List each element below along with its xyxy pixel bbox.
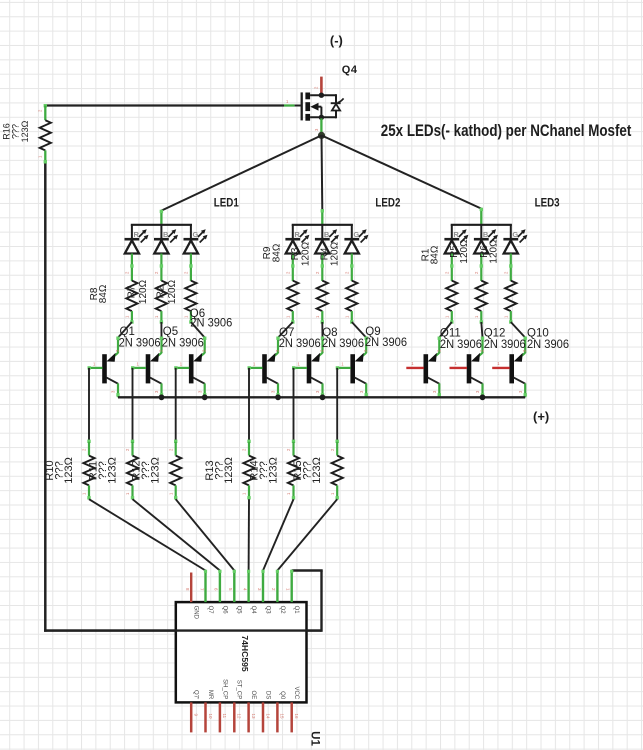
LED LED3-G <box>503 225 527 254</box>
svg-text:Q12: Q12 <box>484 328 506 340</box>
pin Q7&#8242; (bottom) of U1 <box>190 702 193 732</box>
svg-text:B: B <box>483 230 489 239</box>
wire: right riser of Q1 loop <box>320 571 322 632</box>
LED LED3-B <box>474 225 498 254</box>
svg-text:123Ω: 123Ω <box>311 457 323 484</box>
svg-text:G: G <box>193 230 199 239</box>
transistor Q6 2N3906 PNP <box>189 349 207 383</box>
svg-text:B: B <box>163 230 169 239</box>
svg-text:14: 14 <box>265 714 270 720</box>
pin DS (bottom) of U1 <box>262 702 265 732</box>
svg-text:120Ω: 120Ω <box>489 239 500 264</box>
transistor Q10 2N3906 PNP <box>509 349 527 383</box>
wire base of Q1 <box>89 367 103 369</box>
wire base drop to R13 <box>248 368 250 442</box>
wire collector of Q5 to bus <box>150 377 162 383</box>
svg-text:25x LEDs(- kathod) per NChanel: 25x LEDs(- kathod) per NChanel Mosfet <box>381 122 632 140</box>
wire R10 to 74HC595 pin <box>89 499 206 570</box>
svg-text:123Ω: 123Ω <box>63 457 75 484</box>
wire feed resistor to Q11 emitter <box>439 322 452 338</box>
svg-text:Q0: Q0 <box>279 691 285 700</box>
resistor R14 <box>292 442 294 456</box>
resistor R4 <box>346 281 357 312</box>
LED LED1-G <box>184 225 208 254</box>
wire LED LED2-B to resistor <box>321 254 323 282</box>
wire base of Q7 <box>249 367 263 369</box>
wire base drop to R15 <box>336 368 338 442</box>
resistor R13 <box>248 442 250 456</box>
transistor Q11 2N3906 PNP <box>424 349 442 383</box>
wire base drop to R11 <box>132 368 134 442</box>
transistor Q1 2N3906 PNP <box>102 349 120 383</box>
wire collector of Q9 to bus <box>355 377 367 383</box>
node LED2 feed <box>321 210 323 225</box>
svg-text:Q7′: Q7′ <box>193 690 199 700</box>
svg-text:U1: U1 <box>309 731 321 746</box>
svg-text:VCC: VCC <box>293 687 299 700</box>
pin Q1 (top) of U1 <box>291 571 293 603</box>
svg-text:R: R <box>134 230 140 239</box>
svg-text:84Ω: 84Ω <box>98 284 109 303</box>
wire: fan to LED2 <box>321 135 324 210</box>
LED LED3-R <box>444 225 468 254</box>
wire collector of Q12 to bus <box>471 377 483 383</box>
wire: gate wire from R16 top to MOSFET gate <box>45 104 284 106</box>
svg-text:GND: GND <box>193 606 199 620</box>
resistor R8 <box>126 281 137 312</box>
svg-text:2N 3906: 2N 3906 <box>190 318 232 330</box>
wire feed resistor to Q7 emitter <box>278 322 293 338</box>
svg-text:2N 3906: 2N 3906 <box>440 339 482 351</box>
wire collector of Q1 to bus <box>106 377 118 383</box>
junction on bus <box>202 394 208 400</box>
wire LED LED1-G to resistor <box>190 254 192 282</box>
svg-text:R7: R7 <box>127 285 138 298</box>
svg-text:74HC595: 74HC595 <box>240 635 250 672</box>
svg-text:15: 15 <box>280 714 285 720</box>
wire LED3 top bracket <box>451 224 512 226</box>
wire LED LED2-G to resistor <box>351 254 353 282</box>
svg-text:LED3: LED3 <box>535 197 560 209</box>
svg-text:10: 10 <box>208 714 213 720</box>
pin Q2 (top) of U1 <box>276 571 278 603</box>
svg-text:2N 3906: 2N 3906 <box>484 339 526 351</box>
svg-text:120Ω: 120Ω <box>138 279 149 304</box>
wire base of Q5 <box>133 367 147 369</box>
wire LED1 top bracket <box>131 224 192 226</box>
svg-text:12: 12 <box>237 714 242 720</box>
wire: fan to LED3 <box>322 135 482 208</box>
pin Q3 (top) of U1 <box>262 571 264 603</box>
svg-text:Q1: Q1 <box>293 606 299 615</box>
svg-text:16: 16 <box>294 714 299 720</box>
pin base of Q10 (unconnected) <box>492 367 510 369</box>
svg-text:120Ω: 120Ω <box>459 239 470 264</box>
svg-text:R2: R2 <box>156 285 167 298</box>
svg-text:G: G <box>512 230 518 239</box>
resistor R1 <box>446 281 457 312</box>
svg-text:123Ω: 123Ω <box>223 457 235 484</box>
wire R11 to 74HC595 pin <box>133 499 220 570</box>
wire base of Q9 <box>337 367 351 369</box>
svg-text:G: G <box>353 230 359 239</box>
resistor R2 <box>185 281 196 312</box>
resistor R6 <box>505 281 516 312</box>
svg-text:120Ω: 120Ω <box>300 241 311 266</box>
wire feed resistor to Q9 emitter <box>352 322 366 338</box>
wire base drop to R10 <box>88 368 90 442</box>
pin base of Q11 (unconnected) <box>406 367 424 369</box>
wire collector of Q7 to bus <box>266 377 278 383</box>
wire feed resistor to Q8 emitter <box>321 322 323 338</box>
svg-text:Q7: Q7 <box>207 606 213 615</box>
pin Q4 (top) of U1 <box>247 571 249 603</box>
LED LED2-B <box>315 225 339 254</box>
wire LED LED1-R to resistor <box>131 254 133 282</box>
node LED1 feed <box>160 210 162 224</box>
svg-text:120Ω: 120Ω <box>167 279 178 304</box>
wire: bottom horizontal run crossing IC <box>44 629 321 631</box>
svg-text:LED2: LED2 <box>375 197 400 209</box>
wire base of Q8 <box>294 367 308 369</box>
wire LED LED3-R to resistor <box>451 254 453 282</box>
wire collector of Q6 to bus <box>193 377 205 383</box>
svg-text:(-): (-) <box>330 33 343 48</box>
wire base drop to R14 <box>293 368 295 442</box>
pin base of Q12 (unconnected) <box>450 367 468 369</box>
pin Q7 (top) of U1 <box>204 571 206 603</box>
svg-text:84Ω: 84Ω <box>430 245 441 264</box>
svg-text:120Ω: 120Ω <box>330 241 341 266</box>
svg-text:2N 3906: 2N 3906 <box>279 338 321 350</box>
resistor R10 <box>88 442 90 456</box>
wire LED2 top bracket <box>292 224 353 226</box>
transistor Q7 2N3906 PNP <box>262 349 280 383</box>
junction on bus <box>320 394 326 400</box>
svg-text:Q2: Q2 <box>279 606 285 615</box>
wire R14 to 74HC595 pin <box>263 499 294 570</box>
resistor R11 <box>131 442 133 456</box>
LED LED2-G <box>344 225 368 254</box>
svg-text:2N 3906: 2N 3906 <box>322 338 364 350</box>
svg-text:???: ??? <box>11 124 21 139</box>
transistor Q5 2N3906 PNP <box>146 349 164 383</box>
wire feed resistor to Q12 emitter <box>481 322 482 338</box>
svg-text:Q6: Q6 <box>221 606 227 615</box>
svg-text:SH_CP: SH_CP <box>221 679 227 699</box>
wire feed resistor to Q5 emitter <box>160 322 162 338</box>
op-amp U1 74HC595 IC body <box>176 602 307 702</box>
wire (+) bus <box>118 396 525 398</box>
wire LED LED2-R to resistor <box>292 254 294 282</box>
svg-text:B: B <box>324 230 330 239</box>
svg-text:ST_CP: ST_CP <box>236 680 242 699</box>
transistor Q4 N-channel MOSFET <box>302 77 344 133</box>
resistor R15 <box>336 442 338 456</box>
wire base drop to R12 <box>175 368 177 442</box>
resistor R3 <box>317 281 328 312</box>
wire base of Q6 <box>176 367 190 369</box>
svg-text:MR: MR <box>207 690 213 700</box>
wire LED LED3-G to resistor <box>510 254 512 282</box>
transistor Q12 2N3906 PNP <box>467 349 485 383</box>
svg-text:Q11: Q11 <box>440 328 461 340</box>
svg-text:84Ω: 84Ω <box>272 243 283 262</box>
wire R12 to 74HC595 pin <box>176 499 235 570</box>
LED LED2-R <box>285 225 309 254</box>
node: MOSFET source fan-out junction <box>318 132 325 139</box>
svg-text:(+): (+) <box>533 409 549 424</box>
resistor R16 <box>44 106 46 121</box>
wire: left rail from R16 down to bottom <box>44 163 47 632</box>
junction on bus <box>159 394 165 400</box>
svg-text:13: 13 <box>251 714 256 720</box>
svg-text:Q1: Q1 <box>120 326 135 338</box>
svg-text:2N 3906: 2N 3906 <box>119 337 161 349</box>
svg-text:LED1: LED1 <box>214 198 240 210</box>
transistor Q8 2N3906 PNP <box>307 349 325 383</box>
svg-text:Q5: Q5 <box>163 326 178 338</box>
resistor R5 <box>476 281 487 312</box>
resistor R7 <box>156 281 167 312</box>
svg-text:2N 3906: 2N 3906 <box>527 339 569 351</box>
svg-text:Q5: Q5 <box>236 606 242 615</box>
wire: fan to LED1 <box>161 135 321 210</box>
svg-text:Q4: Q4 <box>342 64 358 76</box>
pin Q6 (top) of U1 <box>219 571 221 603</box>
junction on bus <box>480 394 486 400</box>
svg-text:123Ω: 123Ω <box>20 120 30 142</box>
wire R13 to 74HC595 pin <box>248 499 250 570</box>
wire feed resistor to Q6 emitter <box>191 322 205 338</box>
svg-text:123Ω: 123Ω <box>268 457 280 484</box>
svg-text:R: R <box>453 230 459 239</box>
wire R15 to 74HC595 pin <box>277 499 337 570</box>
node LED3 feed <box>480 208 482 224</box>
pin MR (bottom) of U1 <box>204 702 207 732</box>
pin ST_CP (bottom) of U1 <box>233 702 236 732</box>
resistor R9 <box>287 281 298 312</box>
pin Q0 (bottom) of U1 <box>276 702 279 732</box>
svg-text:2N 3906: 2N 3906 <box>365 337 407 349</box>
svg-text:R: R <box>294 230 300 239</box>
LED LED1-R <box>125 225 149 254</box>
svg-text:Q10: Q10 <box>527 328 549 340</box>
pin SH_CP (bottom) of U1 <box>219 702 222 732</box>
wire collector of Q8 to bus <box>311 377 323 383</box>
wire collector of Q10 to bus <box>514 377 526 383</box>
wire: top of Q1 loop into pin Q1 <box>292 569 323 571</box>
svg-text:DS: DS <box>264 691 270 699</box>
svg-text:OE: OE <box>250 691 256 700</box>
pin VCC (bottom) of U1 <box>290 702 293 732</box>
svg-text:Q4: Q4 <box>250 606 256 615</box>
pin Q5 (top) of U1 <box>233 571 235 603</box>
wire feed resistor to Q1 emitter <box>118 322 132 338</box>
pin GND (top) of U1 <box>190 573 192 603</box>
LED LED1-B <box>154 225 178 254</box>
wire collector of Q11 to bus <box>428 377 440 383</box>
junction on bus <box>275 394 281 400</box>
wire LED LED1-B to resistor <box>160 254 162 282</box>
pin OE (bottom) of U1 <box>247 702 250 732</box>
wire LED LED3-B to resistor <box>480 254 482 282</box>
svg-text:Q3: Q3 <box>264 606 270 615</box>
transistor Q9 2N3906 PNP <box>350 349 368 383</box>
wire feed resistor to Q10 emitter <box>511 322 525 338</box>
svg-text:11: 11 <box>222 714 227 719</box>
wire: bottom horizontal run to 74HC595 Q1 loop <box>44 629 321 631</box>
svg-text:2N 3906: 2N 3906 <box>162 337 204 349</box>
svg-text:123Ω: 123Ω <box>150 457 162 484</box>
resistor R12 <box>175 442 177 456</box>
svg-text:123Ω: 123Ω <box>107 457 119 484</box>
